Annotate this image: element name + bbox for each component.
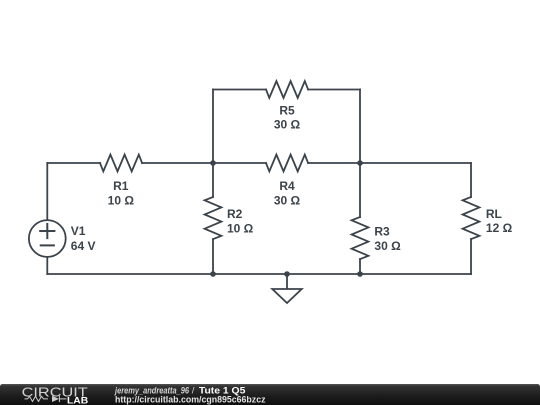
svg-text:30 Ω: 30 Ω <box>274 117 301 131</box>
svg-text:64 V: 64 V <box>71 239 96 253</box>
svg-text:R5: R5 <box>279 103 295 117</box>
svg-text:10 Ω: 10 Ω <box>108 194 135 208</box>
svg-text:V1: V1 <box>71 224 86 238</box>
svg-text:R3: R3 <box>374 225 390 239</box>
svg-text:30 Ω: 30 Ω <box>374 239 401 253</box>
svg-text:12 Ω: 12 Ω <box>486 221 513 235</box>
svg-text:R4: R4 <box>279 179 295 193</box>
svg-text:10 Ω: 10 Ω <box>227 222 254 236</box>
svg-text:R1: R1 <box>113 179 129 193</box>
svg-text:R2: R2 <box>227 207 243 221</box>
svg-text:30 Ω: 30 Ω <box>274 194 301 208</box>
svg-text:RL: RL <box>486 207 502 221</box>
svg-text:http://circuitlab.com/cgn895c6: http://circuitlab.com/cgn895c66bzcz <box>115 395 266 405</box>
svg-text:LAB: LAB <box>67 395 89 405</box>
